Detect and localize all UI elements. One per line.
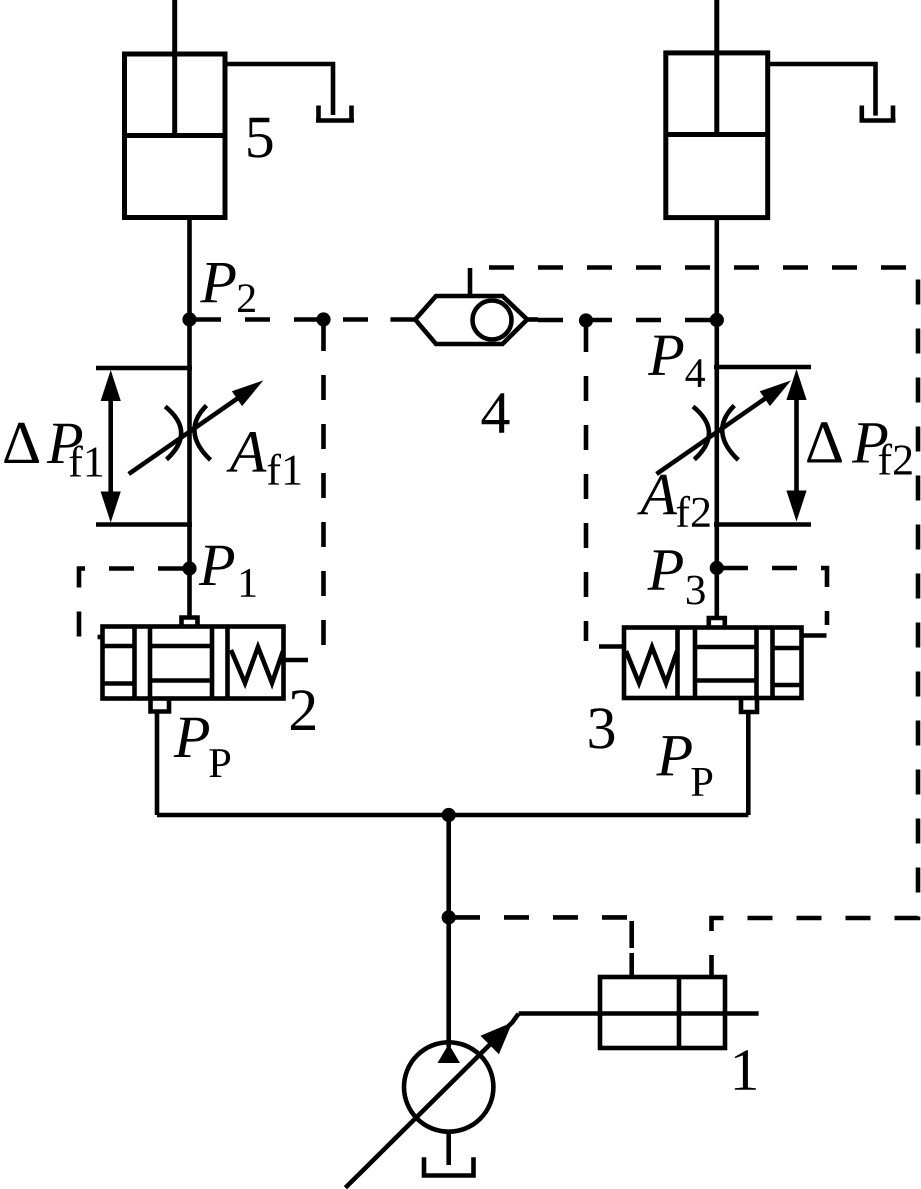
node P2 <box>182 312 196 326</box>
wire dashed shuttle to P4 <box>538 318 710 323</box>
wire P2 to P1 main line <box>187 320 192 569</box>
wire valve 2 to PP line <box>155 712 160 816</box>
node pilot junction A <box>316 312 330 326</box>
wire cylinder 6 rod-side drain <box>768 64 876 116</box>
valve 2 spring <box>231 647 283 683</box>
node P1 <box>182 561 196 575</box>
valve 3 drain stub <box>802 633 827 638</box>
wire cylinder 5 rod-side drain <box>225 64 333 115</box>
wire pump to tank <box>446 1132 451 1165</box>
wire P3 to valve 3 <box>714 568 719 619</box>
label dP_f2 <box>807 422 912 474</box>
measurement dPf1 double arrow <box>101 370 121 523</box>
valve 3 compensator <box>624 618 802 712</box>
label A_f2 <box>637 475 710 527</box>
node P4 <box>710 313 724 327</box>
label P1 <box>199 546 256 597</box>
wire valve 3 to PP line <box>746 712 751 815</box>
label P4 <box>648 336 705 387</box>
wire dashed P2 to shuttle valve <box>196 317 390 322</box>
variable orifice A_f1 <box>129 380 264 474</box>
wire dashed pilot to valve 3 spring side <box>584 327 589 641</box>
wire PP junction to pump <box>446 815 451 1047</box>
tank T3 <box>422 1157 476 1175</box>
valve 2 compensator <box>98 618 284 712</box>
node pilot junction B <box>579 313 593 327</box>
valve 3 spring <box>626 647 677 683</box>
label P2 <box>200 263 255 312</box>
measurement dPf1 ticks <box>96 368 192 525</box>
tank T1 <box>316 106 354 121</box>
wire cylinder 5 to node P2 <box>187 218 192 320</box>
cylinder 5 body <box>125 54 226 218</box>
label dP_f1 <box>4 423 102 477</box>
pump variable displacement arrow <box>345 1014 518 1188</box>
valve 1 pump control <box>600 977 725 1048</box>
cylinder 5 piston rod <box>172 0 177 136</box>
label P3 <box>647 550 704 604</box>
label 1 <box>735 1050 756 1090</box>
pump circle <box>404 1042 493 1131</box>
wire dashed P3 pilot to valve 3 right <box>723 568 827 625</box>
label P_P left <box>174 718 231 777</box>
node pump pilot junction <box>442 910 456 924</box>
wire cylinder 6 to node P4 <box>714 218 719 568</box>
measurement dPf2 ticks <box>714 367 811 525</box>
wire dashed pilot to valve 2 spring side <box>321 326 326 652</box>
label 3 <box>589 708 614 748</box>
wire PP supply line <box>157 813 748 818</box>
wire P1 to valve 2 <box>187 569 192 620</box>
cylinder 6 body <box>666 53 768 218</box>
label P_P right <box>656 736 712 796</box>
variable orifice A_f2 <box>657 380 792 474</box>
measurement dPf2 double arrow <box>786 369 806 522</box>
label A_f1 <box>226 432 300 485</box>
label 5 <box>248 118 272 158</box>
wire dashed P1 pilot to valve 2 left <box>79 569 183 638</box>
label 2 <box>291 690 315 730</box>
shuttle valve 4 <box>390 268 538 344</box>
wire dashed pump node to valve 1 left port <box>455 917 632 977</box>
node PP junction <box>442 808 456 822</box>
wire dashed load-sense loop <box>470 268 918 978</box>
label 4 <box>482 393 510 433</box>
valve 2 drain stub <box>284 658 309 663</box>
wire pump output through valve 1 <box>519 1011 759 1016</box>
node P3 <box>710 561 724 575</box>
tank T2 <box>860 106 896 121</box>
valve 3 spring-side stub <box>599 644 624 649</box>
pump flow triangle <box>438 1044 461 1063</box>
cylinder 6 piston rod <box>714 0 719 135</box>
